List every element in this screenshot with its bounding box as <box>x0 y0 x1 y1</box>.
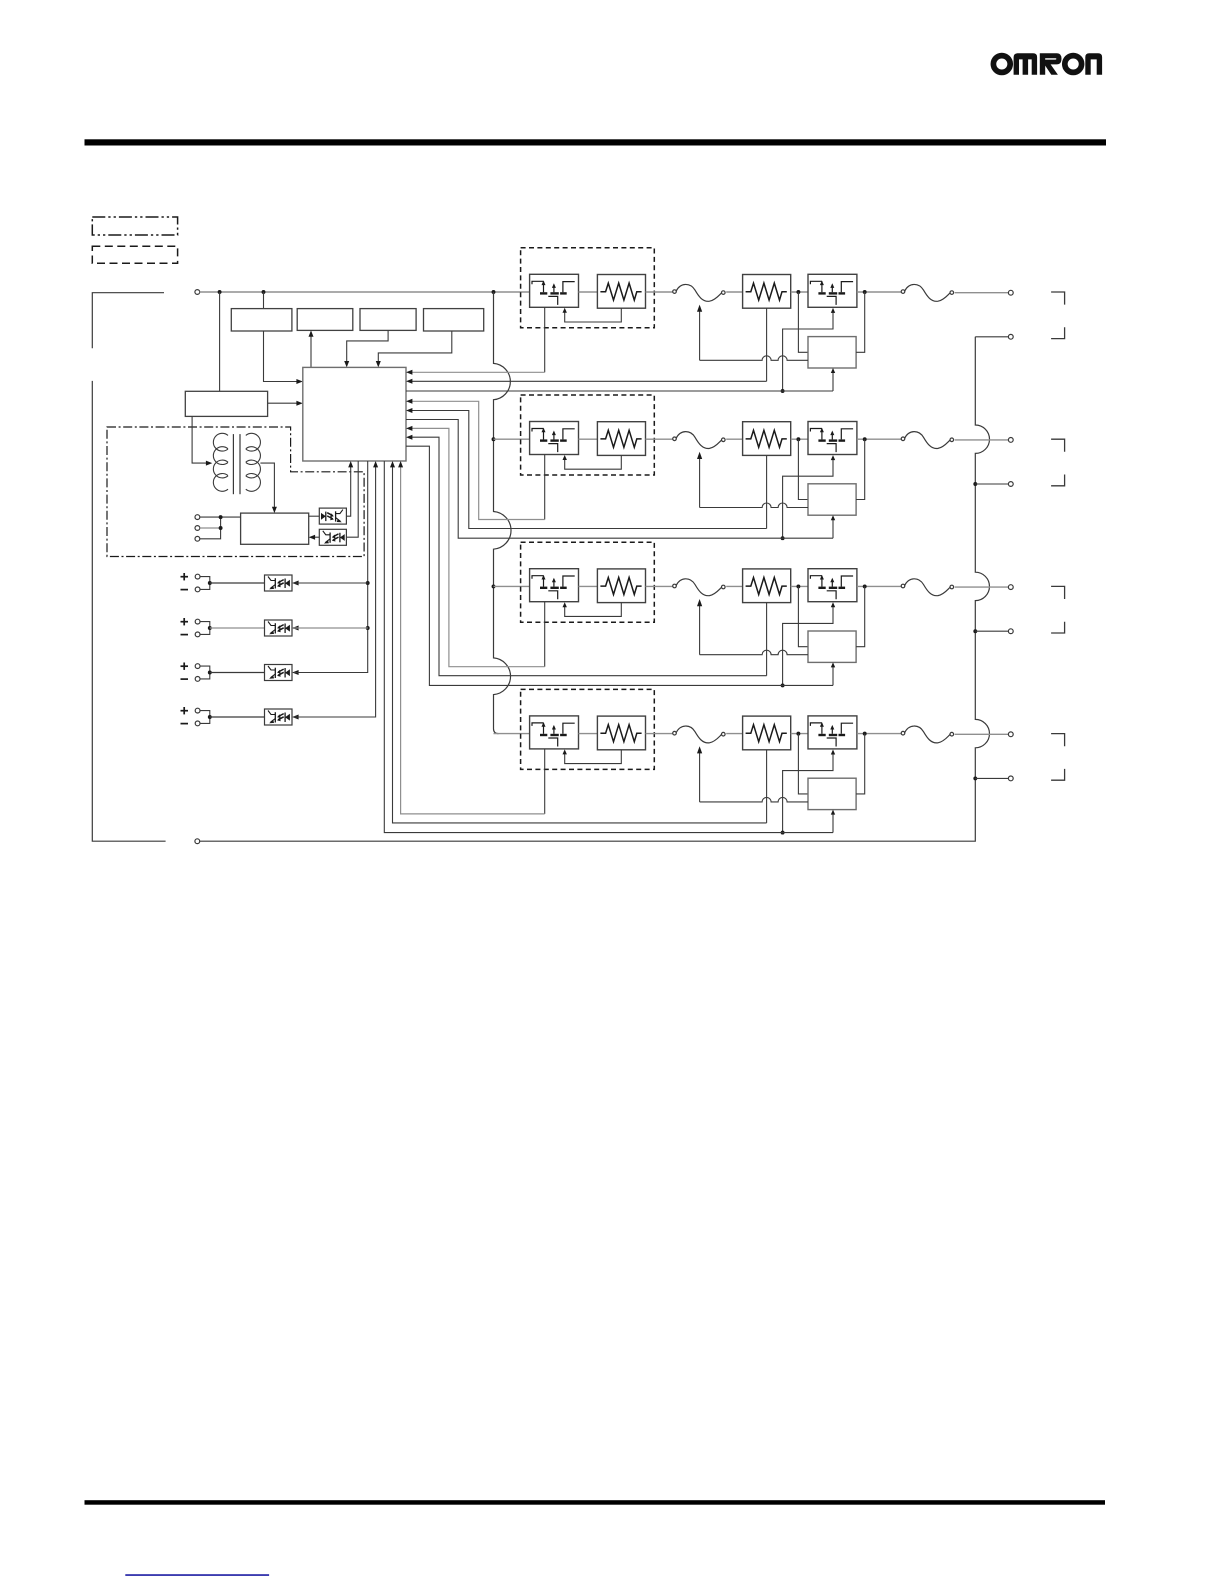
arrowhead into sense block bottom <box>831 515 835 520</box>
wire return to common bus <box>975 777 1008 779</box>
gate drive Q4b path <box>783 752 833 833</box>
wire break to R1b <box>726 291 742 293</box>
junction dot <box>219 515 223 519</box>
wire feedback R2b <box>411 411 766 529</box>
output connector bracket top ch1 <box>1051 292 1065 305</box>
wire sense with hops ch4 <box>700 797 808 802</box>
arrowhead into Q1a bottom <box>563 308 567 313</box>
feedback lead R3b <box>766 603 768 676</box>
wire R4a to break <box>646 733 673 735</box>
junction dot <box>863 732 867 736</box>
junction dot IN2 <box>208 626 212 630</box>
wire return to common bus <box>975 483 1008 485</box>
output connector bracket top ch4 <box>1051 734 1065 747</box>
junction dot <box>863 584 867 588</box>
junction dot <box>796 290 800 294</box>
wire break to R2b <box>726 438 742 440</box>
wire power-supply to controller <box>268 402 301 404</box>
arrowhead into controller bottom <box>348 461 353 467</box>
junction dot <box>796 437 800 441</box>
wire controller to B2 <box>310 333 312 368</box>
arrowhead into controller top <box>344 361 349 367</box>
wire PC2 to rectifier <box>311 536 319 538</box>
wire R4b to Q4b <box>791 733 808 735</box>
junction dot <box>781 831 785 835</box>
MOSFET pair Q1b <box>808 274 857 307</box>
arrowhead into B2 bottom <box>309 330 314 336</box>
top rule <box>85 139 1107 145</box>
load voltage sense arrow ch2 <box>699 457 701 507</box>
isolation boundary (dash-dot) <box>107 427 364 557</box>
junction dot <box>863 437 867 441</box>
arrowhead into controller top <box>376 361 381 367</box>
current sense block 2 <box>808 484 856 515</box>
wire R2a to break <box>646 438 673 440</box>
arrowhead into PC5 <box>292 670 298 675</box>
gate drive Q2b path <box>783 457 833 538</box>
junction dot IN1 <box>208 581 212 585</box>
gate lead Q3a <box>544 602 546 667</box>
dashed box channel 2 (output element) <box>521 395 655 475</box>
input IN2 minus sign <box>181 634 189 636</box>
MOSFET pair Q3b <box>808 569 857 602</box>
block B3 <box>360 309 416 331</box>
break squiggle 1b <box>901 284 953 301</box>
terminal IN4+ <box>195 708 200 713</box>
wire out tap to sense block <box>856 439 865 499</box>
wire R3a to break <box>646 585 673 587</box>
wire to output terminal 2 <box>955 439 1009 441</box>
wire IN1 join <box>200 577 210 590</box>
wire IN4 join <box>200 711 210 724</box>
optocoupler PC5 (input IN3) <box>265 665 293 681</box>
wire feedback R3b <box>411 437 766 676</box>
arrowhead into Q4b bottom <box>831 750 835 755</box>
wire rail tap to sense block <box>798 734 808 794</box>
break squiggle 2b <box>901 432 953 449</box>
input IN1 plus sign <box>181 576 189 578</box>
block B1 (snubber) <box>231 309 292 331</box>
arrowhead into controller <box>406 435 412 440</box>
arrowhead into Q2b bottom <box>831 455 835 460</box>
current sense block 1 <box>808 337 856 368</box>
terminal OUT3 return <box>1008 629 1013 634</box>
MOSFET pair Q1a <box>530 274 579 307</box>
wire gate drive ch4 <box>401 463 545 814</box>
sense output lead ch1 <box>832 371 834 392</box>
input IN2 plus sign <box>181 621 189 623</box>
junction dot <box>262 290 266 294</box>
wire AC top rail (terminal to channel 1) <box>200 291 530 293</box>
OMRON logo <box>993 53 1102 75</box>
wire B1 to controller <box>264 331 301 382</box>
wire out tap to sense block <box>856 292 865 352</box>
junction dot bus/ch3 <box>492 584 496 588</box>
input IN4 minus sign <box>181 723 189 725</box>
resistor R4b (shunt) <box>743 716 791 750</box>
junction dot out4 <box>973 776 977 780</box>
output connector bracket top ch2 <box>1051 439 1065 452</box>
terminal OUT3 <box>1008 585 1013 590</box>
gate lead Q2a <box>544 455 546 520</box>
thermal link R2a to Q2a <box>565 455 622 469</box>
wire IN2 to optocoupler <box>210 627 265 629</box>
arrowhead into Q3b bottom <box>831 602 835 607</box>
wire to output terminal 1 <box>955 292 1009 294</box>
load voltage sense arrow ch4 <box>699 752 701 802</box>
wire riser input 4 <box>294 463 376 717</box>
wire feedback R4b <box>393 463 767 823</box>
resistor R3b (shunt) <box>743 569 791 603</box>
break squiggle 2a <box>673 432 725 449</box>
junction dot bus/ch2 <box>492 437 496 441</box>
wire Q4a to thermistor <box>579 733 598 735</box>
terminal IN3+ <box>195 664 200 669</box>
break squiggle 3b <box>901 579 953 596</box>
link underline (blue) <box>125 1574 269 1576</box>
current sense block 4 <box>808 778 856 809</box>
MOSFET pair Q4a <box>530 716 579 749</box>
terminal OUT4 return <box>1008 776 1013 781</box>
thermistor R2a <box>597 422 645 456</box>
optocoupler PC1 (status) <box>319 508 346 524</box>
thermal link R3a to Q3a <box>565 603 622 617</box>
wire transformer secondary to rectifier <box>260 463 274 511</box>
junction dot <box>218 290 222 294</box>
junction dot <box>796 584 800 588</box>
terminal OUT1 return <box>1008 334 1013 339</box>
wire rail to power-supply block <box>219 292 221 391</box>
sense output lead ch2 <box>832 518 834 539</box>
sense output lead ch4 <box>832 812 834 833</box>
wire gate drive ch1 <box>411 371 544 373</box>
gate drive Q1b path <box>783 310 833 391</box>
wire to output terminal 4 <box>955 733 1009 735</box>
wire PC1 to controller <box>346 463 350 516</box>
wire B3 to controller <box>347 330 388 365</box>
wire sense feedback ch2 <box>406 420 833 539</box>
break squiggle 4a <box>673 726 725 743</box>
legend box (dash-dot-dot border) <box>92 217 177 235</box>
terminal OUT2 return <box>1008 482 1013 487</box>
wire aux c <box>200 517 221 539</box>
wire sense feedback ch4 <box>384 461 833 833</box>
arrowhead into primary <box>206 461 212 466</box>
arrowhead into controller <box>406 408 412 413</box>
wire gate drive ch3 <box>411 428 544 666</box>
wire Q2b out rail <box>857 438 903 440</box>
load voltage sense arrow ch1 <box>699 310 701 360</box>
wire rectifier to PC1 <box>309 515 320 517</box>
output connector bracket bottom ch1 <box>1051 327 1065 338</box>
arrowhead into controller <box>406 379 412 384</box>
wire sense feedback ch1 <box>406 390 833 392</box>
terminal OUT4 <box>1008 732 1013 737</box>
arrowhead into controller <box>406 370 412 375</box>
gate drive Q3b path <box>783 605 833 686</box>
load voltage sense arrow ch3 <box>699 604 701 654</box>
input IN3 plus sign <box>181 665 189 667</box>
wire power-supply to transformer primary <box>192 416 206 463</box>
block B4 <box>424 309 484 331</box>
arrowhead into sense block bottom <box>831 662 835 667</box>
junction dot <box>781 536 785 540</box>
wire Q3b out rail <box>857 585 903 587</box>
output connector bracket bottom ch3 <box>1051 622 1065 633</box>
wire channel 3 rail from bus <box>494 585 530 587</box>
output common bus with hops to bottom rail <box>200 337 990 841</box>
input IN4 plus sign <box>181 710 189 712</box>
terminal IN2- <box>195 632 200 637</box>
arrowhead into Q1b bottom <box>831 308 835 313</box>
break squiggle 1a <box>673 284 725 301</box>
wire gate drive ch2 <box>411 401 544 519</box>
arrowhead into controller <box>406 399 412 404</box>
junction dot out2 <box>973 482 977 486</box>
wire B4 to controller <box>378 331 452 365</box>
wire Q4b out rail <box>857 733 903 735</box>
thermistor R3a <box>597 569 645 603</box>
input IN1 minus sign <box>181 589 189 591</box>
optocoupler PC2 (control) <box>319 529 346 545</box>
wire aux a to rectifier <box>200 516 241 518</box>
wire IN1 opto to riser <box>294 582 368 584</box>
arrowhead into controller bottom <box>398 461 403 467</box>
input IN3 minus sign <box>181 678 189 680</box>
MOSFET pair Q4b <box>808 716 857 749</box>
sense output lead ch3 <box>832 665 834 686</box>
wire R3b to Q3b <box>791 585 808 587</box>
arrowhead into PC4 <box>292 626 298 631</box>
junction dot out3 <box>973 629 977 633</box>
junction dot <box>796 732 800 736</box>
wire IN2 join <box>200 622 210 635</box>
wire aux b <box>200 527 221 529</box>
left boundary bracket <box>92 293 165 842</box>
terminal (aux AC a) <box>195 515 200 520</box>
dashed box channel 3 (output element) <box>521 542 655 622</box>
optocoupler PC6 (input IN4) <box>265 709 293 725</box>
output connector bracket bottom ch2 <box>1051 475 1065 486</box>
thermistor R4a <box>597 716 645 750</box>
wire out tap to sense block <box>856 734 865 794</box>
terminal IN1- <box>195 587 200 592</box>
wire IN3 join <box>200 666 210 679</box>
wire R2b to Q2b <box>791 438 808 440</box>
wire controller to PC2 <box>346 461 358 537</box>
wire channel 2 rail from bus <box>494 438 530 440</box>
wire out tap to sense block <box>856 586 865 646</box>
current sense block 3 <box>808 631 856 662</box>
resistor R1b (shunt) <box>743 275 791 309</box>
arrowhead into sense block bottom <box>831 810 835 815</box>
terminal (AC line top) <box>195 290 200 295</box>
rectifier block <box>241 513 309 544</box>
junction dot <box>366 581 370 585</box>
MOSFET pair Q2a <box>530 422 579 455</box>
wire rail to block B1 <box>263 292 265 309</box>
arrowhead into controller bottom <box>373 461 378 467</box>
arrowhead into controller bottom <box>390 461 395 467</box>
wire break to R3b <box>726 585 742 587</box>
wire break to R4b <box>726 733 742 735</box>
wire channel 4 rail from bus <box>494 733 530 735</box>
wire sense with hops ch2 <box>700 503 808 508</box>
wire return to common bus <box>975 336 1008 338</box>
terminal (bottom rail) <box>195 839 200 844</box>
dashed box channel 1 (output element) <box>521 248 655 328</box>
wire sense feedback ch3 <box>406 446 833 685</box>
wire sense with hops ch1 <box>700 356 808 361</box>
arrowhead into Q2a bottom <box>563 455 567 460</box>
wire IN4 to optocoupler <box>210 716 265 718</box>
wire rail tap to sense block <box>798 439 808 499</box>
wire to output terminal 3 <box>955 586 1009 588</box>
transformer T1 <box>213 433 260 494</box>
wire IN3 to optocoupler <box>210 672 265 674</box>
feedback lead R1b <box>766 308 768 381</box>
thermistor R1a <box>597 275 645 309</box>
optocoupler PC3 (input IN1) <box>265 575 293 591</box>
wire R1a to break <box>646 291 673 293</box>
terminal OUT2 <box>1008 438 1013 443</box>
terminal IN2+ <box>195 619 200 624</box>
break squiggle 4b <box>901 726 953 743</box>
arrowhead into sense block bottom <box>831 368 835 373</box>
output connector bracket top ch3 <box>1051 586 1065 599</box>
feedback lead R4b <box>766 750 768 823</box>
optocoupler PC4 (input IN2) <box>265 620 293 636</box>
wire IN2 opto to riser <box>294 627 368 629</box>
thermal link R4a to Q4a <box>565 750 622 764</box>
resistor R2b (shunt) <box>743 422 791 456</box>
thermal link R1a to Q1a <box>565 308 622 322</box>
arrowhead into PC3 <box>292 581 298 586</box>
dashed box channel 4 (output element) <box>521 689 655 769</box>
terminal IN1+ <box>195 574 200 579</box>
block B2 <box>297 309 353 331</box>
power-supply block <box>185 391 267 416</box>
junction dot IN4 <box>208 715 212 719</box>
wire R1b to Q1b <box>791 291 808 293</box>
junction dot (main bus tap) <box>492 290 496 294</box>
junction dot <box>366 626 370 630</box>
junction dot <box>219 526 223 530</box>
output connector bracket bottom ch4 <box>1051 769 1065 780</box>
wire return to common bus <box>975 630 1008 632</box>
feedback lead R2b <box>766 455 768 528</box>
gate lead Q4a <box>544 749 546 814</box>
break squiggle 3a <box>673 579 725 596</box>
wire Q1a to thermistor <box>579 291 598 293</box>
legend box (dashed border) <box>92 246 177 263</box>
wire feedback R1b <box>411 380 766 382</box>
junction dot <box>781 683 785 687</box>
bottom rule <box>85 1500 1106 1505</box>
MOSFET pair Q3a <box>530 569 579 602</box>
terminal IN3- <box>195 677 200 682</box>
wire riser input 1-3 bus <box>294 461 368 673</box>
arrowhead into controller <box>406 426 412 431</box>
terminal OUT1 <box>1008 290 1013 295</box>
terminal IN4- <box>195 721 200 726</box>
arrowhead into PC6 <box>292 715 298 720</box>
wire rail tap to sense block <box>798 292 808 352</box>
arrowhead into rectifier right <box>309 535 315 540</box>
wire sense with hops ch3 <box>700 650 808 655</box>
wire Q2a to thermistor <box>579 438 598 440</box>
wire Q3a to thermistor <box>579 585 598 587</box>
arrowhead into Q3a bottom <box>563 602 567 607</box>
wire IN1 to optocoupler <box>210 582 265 584</box>
gate lead Q1a <box>544 307 546 372</box>
wire Q1b out rail <box>857 291 903 293</box>
terminal (aux AC b) <box>195 526 200 531</box>
wire rail tap to sense block <box>798 586 808 646</box>
controller block (main control IC) <box>303 367 406 461</box>
junction dot <box>781 389 785 393</box>
main AC bus with hops <box>494 292 512 734</box>
junction dot <box>863 290 867 294</box>
terminal (aux AC c) <box>195 536 200 541</box>
arrowhead into controller left <box>296 379 302 384</box>
arrowhead into rectifier top <box>272 507 277 513</box>
arrowhead into Q4a bottom <box>563 749 567 754</box>
junction dot IN3 <box>208 671 212 675</box>
MOSFET pair Q2b <box>808 422 857 455</box>
arrowhead into controller left <box>296 401 302 406</box>
